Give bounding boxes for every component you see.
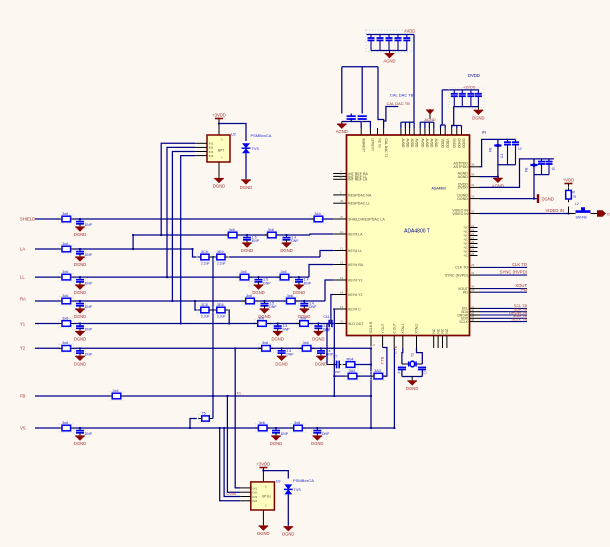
wire bus to module pin2 [227,396,240,492]
capacitor C219 to ground [74,250,85,256]
capacitor C230 [214,253,229,262]
svg-text:32: 32 [471,209,475,213]
wire row1 [133,234,228,236]
svg-text:DGND: DGND [270,441,282,446]
resistor R223 [299,344,314,353]
svg-text:U3: U3 [276,480,281,484]
svg-text:VDDD: VDDD [445,139,449,149]
ferrite bead FB201 [494,144,501,146]
wire RA row [35,300,60,302]
svg-text:Y2: Y2 [20,346,26,351]
svg-text:SCLK TB: SCLK TB [511,317,527,321]
wire DVDD pin to filter2 [480,159,554,188]
wire row3 [246,300,287,302]
wire DVDD rail to pin [441,90,443,125]
capacitor C212 [507,139,509,142]
svg-text:DNP: DNP [85,253,93,257]
capacitor C240 to ground [315,349,326,355]
svg-text:13: 13 [340,276,344,280]
svg-text:AVDD: AVDD [404,29,415,34]
svg-text:RA: RA [20,297,26,302]
svg-text:TVS: TVS [294,488,302,492]
wire Y OUT row [334,375,345,377]
svg-text:DNP: DNP [304,281,312,285]
svg-text:19: 19 [340,305,344,309]
svg-text:BPT: BPT [218,149,224,153]
svg-text:75: 75 [572,195,576,199]
svg-text:31: 31 [471,271,475,275]
IC bottom pin stubs and labels [370,336,372,347]
capacitor C225 to ground [270,429,281,435]
svg-text:XTAL2: XTAL2 [415,323,419,333]
svg-text:SHIELD: SHIELD [20,216,35,221]
wire AVDD rail down to IC AVDD pins [413,35,415,123]
capacitor C222 to ground [74,325,85,331]
capacitor C217 [418,366,426,368]
svg-text:DGND: DGND [275,361,287,366]
IC right NC pin stubs [470,227,478,229]
wire DVDD bottom rail to pin [452,107,455,128]
svg-text:LPFEXT: LPFEXT [371,139,375,151]
ground DGND of DVDD bank [477,107,479,110]
svg-text:DGND: DGND [240,185,252,190]
svg-text:NC: NC [432,328,436,333]
svg-text:0.1: 0.1 [500,153,504,158]
wire XTAL2 drop [417,348,423,364]
svg-text:DNP: DNP [283,328,291,332]
wire crystal ground rail [402,376,422,378]
svg-text:ADA4800: ADA4800 [431,187,446,191]
resistor R215 [264,231,279,240]
resistor R206 [59,297,74,306]
resistor R204 [59,245,74,254]
decoupling capacitor bank C208-C211 (DVDD) [442,89,479,91]
svg-text:344: 344 [314,212,320,216]
module U202 left pin stubs [195,142,207,144]
wire R203 to SHIELD pin [323,218,334,220]
wire LL row [35,276,60,278]
svg-text:AVDD: AVDD [414,139,418,149]
capacitor C223 to ground [74,349,85,355]
svg-text:DGND: DGND [312,337,324,342]
capacitor C206 [347,115,356,117]
wire series pair2 [195,301,197,310]
resistor R209 [109,392,124,401]
wire filter1 bottom rail [498,164,516,166]
svg-text:DGND: DGND [241,248,253,253]
wire pair-node vertical [212,257,214,419]
svg-text:DVDD: DVDD [468,73,480,78]
svg-text:AGND: AGND [336,129,348,134]
resistor R202 [59,215,74,224]
capacitor C213 [515,139,517,142]
wire +3VDD to module [218,122,220,136]
svg-text:PSMBxxCA: PSMBxxCA [251,133,272,138]
svg-text:FB: FB [489,147,493,152]
svg-text:LA: LA [20,246,25,251]
svg-text:AVDD: AVDD [410,139,414,149]
svg-text:2.2uF: 2.2uF [201,315,210,319]
module U202 body [207,135,230,162]
capacitor C238 to ground [313,325,324,331]
svg-text:+VDD: +VDD [563,178,574,183]
wire XTAL1 drop [401,348,404,364]
resistor R207 [59,319,74,328]
svg-text:AVDD: AVDD [430,139,434,149]
svg-text:DGND: DGND [280,248,292,253]
ground AGND left of IC top [341,122,343,124]
resistor R218 [243,297,258,306]
svg-text:DGND: DGND [74,232,86,237]
svg-text:3x6: 3x6 [62,270,68,274]
svg-text:DGND: DGND [74,314,86,319]
svg-text:Y2: Y2 [411,353,415,357]
svg-text:Y TB: Y TB [380,356,384,364]
IC right serial bus wires and net labels [470,307,480,309]
capacitor C224 to ground [74,429,85,435]
svg-text:DNP: DNP [252,239,260,243]
svg-text:AVDD: AVDD [406,139,410,149]
svg-text:10: 10 [518,147,522,151]
svg-text:DNP: DNP [334,370,340,374]
svg-text:DGND: DGND [213,184,225,189]
svg-text:+3VDD: +3VDD [257,462,271,467]
svg-text:3C8: 3C8 [201,303,208,307]
svg-text:3x6: 3x6 [300,316,306,320]
svg-text:AVDD: AVDD [401,139,405,149]
svg-text:VDDD: VDDD [441,139,445,149]
svg-text:SLD OUT: SLD OUT [348,322,364,326]
capacitor C237 to ground [272,325,283,331]
svg-text:IN: IN [482,130,486,135]
wire bus to module pin4 [220,428,241,501]
capacitor C220 to ground [74,278,85,284]
svg-text:11: 11 [340,246,343,250]
wire C OUT vertical [393,349,395,428]
svg-text:3x6: 3x6 [268,228,274,232]
svg-text:47: 47 [340,215,344,219]
svg-text:3x6: 3x6 [229,228,235,232]
svg-text:CAL DAC T2: CAL DAC T2 [384,139,388,158]
capacitor C231 to ground [253,278,264,284]
svg-text:SCLK B: SCLK B [369,321,373,334]
IC right CLK/SYNC/XOUT/PD wires and net labels [470,266,480,268]
resistor R212 [255,424,270,433]
svg-text:4L: 4L [398,370,402,374]
capacitor C221 to ground [74,302,85,308]
resistor R219 [283,297,298,306]
capacitor C241 cluster [327,364,334,366]
svg-text:VIDEO IN: VIDEO IN [546,208,564,213]
IC top pin stubs and labels [360,128,362,135]
svg-text:C1: C1 [423,370,427,374]
svg-text:AGND: AGND [458,172,469,176]
svg-text:DGND: DGND [293,290,305,295]
svg-text:NC IN: NC IN [378,139,382,149]
svg-text:2.2uF: 2.2uF [201,262,210,266]
resistor R217 [277,273,292,282]
svg-text:L2: L2 [575,202,579,206]
svg-text:CVBS: CVBS [227,492,237,496]
svg-text:DNP: DNP [286,353,294,357]
svg-text:DGND: DGND [257,531,269,536]
wire TVS to ground [245,153,247,179]
svg-text:SYNC (HVPD): SYNC (HVPD) [445,273,468,277]
IC left pin stubs and labels [333,173,346,175]
IC right upper pin stubs and labels [470,166,480,168]
svg-text:3x6: 3x6 [258,316,264,320]
svg-text:INT REF LA: INT REF LA [348,178,368,182]
svg-text:DGND: DGND [282,532,294,537]
svg-text:Y OUT: Y OUT [381,323,385,333]
svg-text:3x6: 3x6 [62,341,68,345]
wire module U203 to TVS [263,471,288,479]
svg-text:28: 28 [471,252,475,256]
svg-text:IN4: IN4 [209,154,214,158]
svg-text:CLK TO: CLK TO [512,262,528,267]
crystal Y201 [402,363,409,365]
svg-text:VIDEO IN: VIDEO IN [452,209,468,213]
TVS diode D202 [284,484,292,489]
wire module to TVS [219,124,246,142]
svg-text:TVS: TVS [252,147,260,151]
svg-text:3C9: 3C9 [201,250,208,254]
svg-text:2.2uF: 2.2uF [217,315,226,319]
wire series pair1 [193,249,197,257]
resistor R213 [291,424,306,433]
svg-text:KEY# RA: KEY# RA [348,263,364,267]
svg-text:45: 45 [471,318,475,322]
svg-text:2.2uF: 2.2uF [217,262,226,266]
svg-text:CAL DAC TB: CAL DAC TB [390,93,414,98]
wire loop to BGREXT/LPFEXT [342,66,378,68]
capacitor C236 [214,306,229,315]
wire module U202 bottom [218,162,220,178]
ground DGND TVS D202 [287,525,289,527]
svg-text:3A0: 3A0 [374,369,381,373]
svg-text:3x6: 3x6 [113,389,119,393]
svg-text:DNP: DNP [281,432,289,436]
capacitor C207 [358,115,367,117]
svg-text:DNP: DNP [291,239,299,243]
svg-text:FB: FB [525,167,529,172]
svg-text:3x6: 3x6 [246,294,252,298]
wire row5 continuation [270,347,302,349]
svg-text:BGREXT: BGREXT [361,139,365,153]
wire CAL DAC TB [384,107,399,122]
op-amp U201 video decoder body [347,135,470,336]
svg-text:AVDD: AVDD [420,139,424,149]
wire bus to module pin1 [235,348,240,488]
svg-text:+3VDD: +3VDD [212,113,226,118]
svg-text:KEY# Y2: KEY# Y2 [348,293,363,297]
ground DGND module U203 [262,524,264,526]
capacitor C214 [541,159,543,162]
svg-text:CAL DAC TB: CAL DAC TB [387,101,411,106]
svg-text:PD: PD [521,287,527,292]
resistor R222 [259,344,274,353]
svg-text:DNP: DNP [85,281,93,285]
svg-text:PSMBxxCA: PSMBxxCA [293,478,314,483]
svg-text:SM-FB: SM-FB [576,216,588,220]
resistor R226 [371,372,386,381]
svg-text:DNP: DNP [85,223,93,227]
wire video junction [568,207,570,214]
svg-text:SP Ex: SP Ex [262,495,271,499]
svg-text:FB: FB [20,393,26,398]
wire VDDD pin pair comb [441,124,446,126]
capacitor C218 to ground [74,220,85,226]
svg-text:3x6: 3x6 [259,421,265,425]
svg-text:DGND: DGND [457,194,468,198]
svg-text:O: O [607,212,610,216]
svg-text:75: 75 [202,411,206,415]
svg-text:R04: R04 [347,357,354,361]
svg-text:48: 48 [340,199,344,203]
svg-text:LL: LL [20,275,25,280]
svg-text:DGND: DGND [252,290,264,295]
resistor R203 series to IC [311,215,326,224]
capacitor C233 to ground [259,302,270,308]
capacitor C235 [198,306,213,315]
svg-text:3x6: 3x6 [281,270,287,274]
wire Y1 row [35,323,60,325]
capacitor C227 to ground [241,236,252,242]
svg-text:3x6: 3x6 [62,242,68,246]
svg-text:3x6: 3x6 [241,270,247,274]
module U203 left pin stubs [240,487,251,489]
svg-text:C OUT: C OUT [392,323,396,333]
svg-text:20: 20 [340,319,344,323]
svg-text:C41: C41 [324,315,330,319]
resistor R205 [59,273,74,282]
resistor R201 pullup [568,187,570,190]
svg-text:ADA4800 T: ADA4800 T [404,229,430,235]
wire TVS D202 to ground [287,494,289,525]
svg-text:DNP: DNP [322,432,330,436]
capacitor C239 to ground [276,349,287,355]
svg-text:XTAL1: XTAL1 [401,323,405,333]
wire SHIELD row [35,218,60,220]
svg-text:DGND: DGND [542,197,554,202]
wire AGND pin to filter ground [480,176,498,178]
svg-text:DNP: DNP [85,353,93,357]
svg-text:DGND: DGND [74,361,86,366]
svg-text:12: 12 [340,260,344,264]
svg-text:DNP: DNP [85,305,93,309]
svg-text:DVDD: DVDD [462,139,466,149]
wire VS row [35,427,60,429]
wire filter2 bottom rail [534,174,549,176]
port VIDEO OUT [597,210,606,216]
ferrite bead L201 SM-FB [569,213,576,215]
svg-text:36: 36 [471,163,475,167]
capacitor C242 on SLD pin [328,320,330,327]
svg-text:SYNC (HVPD): SYNC (HVPD) [500,270,528,275]
svg-text:3x6: 3x6 [287,294,293,298]
svg-text:3x6: 3x6 [303,341,309,345]
svg-text:AGND: AGND [383,59,395,64]
resistor R220 [255,319,270,328]
svg-text:VS: VS [20,425,26,430]
svg-text:CLK TO: CLK TO [455,266,468,270]
svg-text:DVDD: DVDD [458,183,469,187]
svg-text:AVDD: AVDD [425,139,429,149]
svg-text:DVDD: DVDD [452,139,456,149]
svg-text:DGND: DGND [315,361,327,366]
svg-text:SCLK: SCLK [459,320,468,324]
capacitor C215 [548,159,550,162]
ground DGND sideways [537,194,539,203]
wire FB row [35,395,110,397]
resistor R225 [345,372,360,381]
wire bus to module pin3 [224,428,240,497]
svg-text:33: 33 [471,194,475,198]
svg-text:DGND: DGND [406,386,418,391]
resistor R221 [297,319,312,328]
wire row2 [240,276,280,278]
svg-text:U2: U2 [231,133,236,137]
wire DGND pin to sideways ground [480,198,537,200]
svg-text:PD: PD [463,291,468,295]
svg-text:3x6: 3x6 [62,421,68,425]
wire Y2 row [35,347,60,349]
ground DGND TVS D201 [245,178,247,180]
svg-text:3x6: 3x6 [62,316,68,320]
ground AGND of cap bank [389,51,391,53]
svg-text:KEY# LL: KEY# LL [348,249,362,253]
resistor R224 [343,360,358,369]
svg-text:29: 29 [471,263,475,267]
svg-text:NC: NC [441,328,445,333]
decoupling capacitor bank C201-C205 (AVDD) [367,34,415,36]
svg-text:NC: NC [445,328,449,333]
svg-text:10: 10 [340,230,344,234]
svg-text:AGND: AGND [424,117,435,122]
svg-text:DNP: DNP [309,305,317,309]
svg-text:3E8: 3E8 [217,303,224,307]
ferrite bead FB202 [530,164,537,166]
svg-text:IN4: IN4 [252,499,257,503]
svg-text:SHIELD/RESPDAC LA: SHIELD/RESPDAC LA [348,217,385,221]
capacitor C226 to ground [312,429,323,435]
svg-text:28: 28 [471,288,475,292]
svg-text:3x6: 3x6 [62,294,68,298]
svg-text:F1: F1 [237,392,241,396]
IC bottom NC stubs [433,336,435,349]
svg-text:10: 10 [552,167,556,171]
svg-text:DGND: DGND [74,441,86,446]
svg-text:DGND: DGND [472,115,484,120]
TVS diode D201 [242,143,250,148]
svg-text:34: 34 [471,183,475,187]
svg-text:DNP: DNP [263,281,271,285]
wire SLD OUT [332,323,333,325]
svg-text:DGND: DGND [74,262,86,267]
svg-text:35: 35 [471,172,475,176]
wires from module U202 to input rows [161,143,195,235]
ground AGND filter1 [497,176,499,178]
svg-text:DGND: DGND [74,337,86,342]
svg-text:R: R [572,191,575,195]
svg-text:AVDD: AVDD [434,139,438,149]
ground DGND module U202 [218,177,220,179]
svg-text:3x6: 3x6 [294,421,300,425]
capacitor C234 to ground [299,302,310,308]
svg-text:KEY# Y1: KEY# Y1 [348,278,363,282]
wire LA row [35,248,60,250]
resistor R211 jog [199,414,213,422]
